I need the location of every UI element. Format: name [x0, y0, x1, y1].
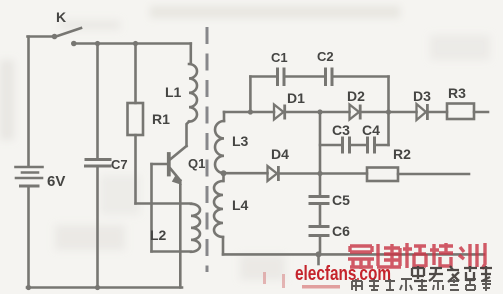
wire C3 row left: [320, 144, 342, 147]
wire battery bottom: [27, 188, 30, 288]
wire D3-R3: [429, 111, 448, 114]
wire C4 to corner: [375, 144, 389, 147]
inductor L1: [189, 64, 197, 122]
svg-text:C2: C2: [317, 49, 334, 64]
svg-text:L1: L1: [165, 84, 182, 100]
wire R1 top: [134, 44, 137, 104]
svg-text:R2: R2: [393, 146, 411, 162]
wire R2 output: [398, 173, 469, 176]
svg-text:L2: L2: [150, 227, 167, 243]
wire bottom-right rail: [223, 253, 484, 256]
inductor L4: [214, 181, 223, 237]
wire top-left horizontal to switch: [28, 35, 56, 38]
wire R3 output: [474, 111, 488, 114]
wire C6 bottom: [319, 237, 322, 255]
node D4 row C5: [317, 171, 322, 176]
capacitor C4: [366, 138, 369, 152]
wire emitter vertical: [179, 181, 182, 288]
node battery bottom rail: [26, 285, 31, 290]
wire C3 branch vertical: [319, 112, 322, 196]
svg-text:D1: D1: [287, 90, 305, 106]
node C7 top: [95, 41, 100, 46]
node R1 top: [133, 41, 138, 46]
wire right corner vertical: [387, 77, 390, 146]
resistor R3: [447, 104, 474, 120]
wire C3-C4: [350, 144, 367, 147]
diode D3: [417, 104, 427, 120]
wire base vertical: [150, 164, 153, 252]
svg-text:K: K: [56, 9, 66, 25]
svg-text:C3: C3: [332, 122, 350, 138]
node C6 rail: [316, 251, 322, 257]
faint red marks left of logo: [263, 272, 285, 288]
node C2 corner row: [386, 109, 391, 114]
capacitor C5: [310, 195, 328, 198]
node switch contact: [71, 41, 77, 47]
wire L3-L4 junction stub: [222, 173, 225, 181]
wire C7 bottom: [96, 168, 99, 288]
wire D4 row left: [224, 172, 268, 175]
transistor Q1: [167, 154, 171, 175]
svg-text:D4: D4: [271, 146, 289, 162]
wire C7 top: [96, 44, 99, 159]
capacitor C2: [324, 69, 327, 85]
svg-text:L4: L4: [232, 197, 249, 213]
capacitor C7: [86, 158, 110, 161]
wire L3 top vertical: [223, 112, 226, 121]
node L3 L4 D4: [221, 170, 227, 176]
wire top rail after switch: [74, 42, 191, 45]
node C7 bottom rail: [95, 285, 100, 290]
wire battery top vertical: [27, 37, 30, 166]
wire base lead: [152, 163, 168, 166]
resistor R1: [128, 103, 144, 135]
svg-text:R1: R1: [152, 111, 170, 127]
resistor R2: [367, 168, 398, 182]
diode D2: [350, 105, 360, 120]
svg-text:D3: D3: [413, 88, 431, 104]
capacitor C6: [310, 225, 328, 228]
switch K blade: [55, 28, 82, 37]
node switch pivot: [52, 34, 58, 40]
svg-text:C5: C5: [332, 192, 350, 208]
diode D1: [274, 105, 284, 120]
node C1 branch: [248, 109, 253, 114]
svg-text:6V: 6V: [47, 173, 65, 190]
inductor L2: [191, 204, 200, 252]
svg-text:C4: C4: [362, 122, 380, 138]
watermark shepin tianxian gray text: [352, 279, 491, 291]
svg-text:R3: R3: [448, 85, 466, 101]
watermark dianzifashaoyou script: [412, 266, 492, 282]
wire D2-D3: [361, 111, 417, 114]
wire C1 branch vertical: [249, 77, 252, 113]
svg-text:C7: C7: [111, 157, 128, 172]
inductor L3: [215, 121, 224, 173]
transistor Q1 emitter arrow: [172, 174, 182, 185]
wire D1-D2: [286, 111, 350, 114]
wire C1 row left: [250, 75, 277, 78]
svg-text:C6: C6: [332, 223, 350, 239]
wire R1 bottom: [134, 135, 137, 204]
wire C5-C6: [319, 205, 322, 226]
watermark slogan tiny red: [302, 285, 340, 289]
wire C2 to corner: [333, 75, 389, 78]
transformer core dashed: [206, 27, 209, 272]
capacitor C1: [276, 69, 279, 85]
svg-text:D2: D2: [347, 88, 365, 104]
wire stub below rail: [317, 254, 320, 264]
wire D4-R2: [280, 172, 368, 175]
wire D1 row left: [224, 111, 274, 114]
wire L2 bottom: [152, 250, 192, 253]
wire L4 bottom drop: [222, 237, 225, 254]
diode D4: [268, 166, 278, 181]
node C3 branch top: [317, 109, 322, 114]
svg-text:L3: L3: [232, 133, 249, 149]
battery B1 6V: [16, 166, 43, 169]
capacitor C3: [341, 138, 344, 152]
watermark red banner yiditapeixun: [348, 243, 485, 269]
wire collector drop: [187, 122, 190, 146]
wire bottom-left rail: [27, 286, 182, 289]
wire base row horizontal: [136, 202, 192, 205]
wire L1 top drop: [190, 44, 193, 65]
svg-text:Q1: Q1: [188, 156, 205, 171]
wire C1-C2: [285, 75, 326, 78]
svg-text:C1: C1: [271, 50, 288, 65]
